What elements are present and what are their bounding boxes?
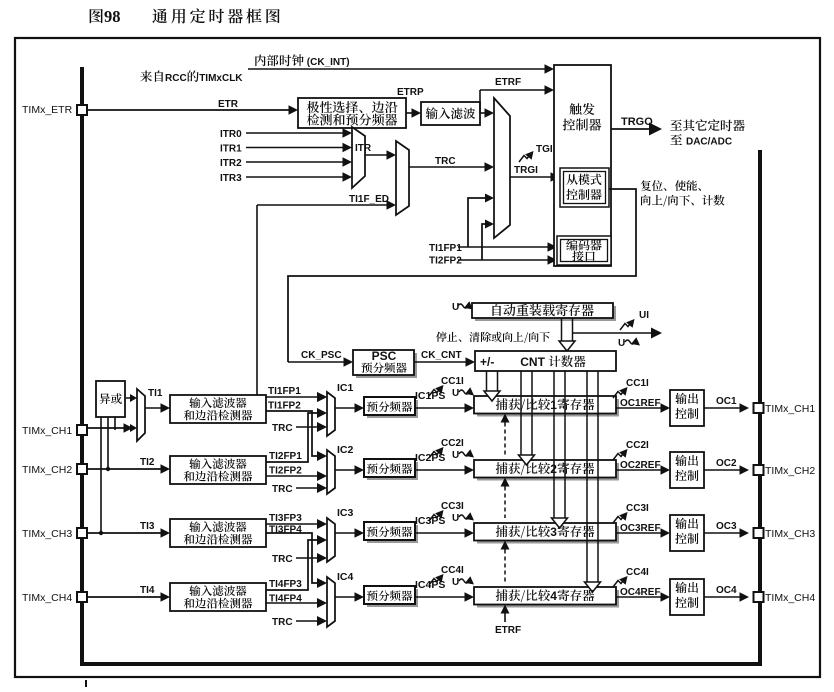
svg-text:U: U — [452, 302, 459, 313]
svg-text:自动重装载寄存器: 自动重装载寄存器 — [490, 300, 594, 319]
svg-text:CK_CNT: CK_CNT — [421, 350, 462, 361]
svg-text:U: U — [452, 513, 459, 524]
svg-text:内部时钟 (CK_INT): 内部时钟 (CK_INT) — [254, 51, 350, 69]
svg-text:TI4: TI4 — [140, 585, 155, 596]
svg-text:U: U — [452, 388, 459, 399]
svg-text:CC4I: CC4I — [626, 567, 649, 578]
svg-text:U: U — [618, 338, 625, 349]
svg-text:TIMx_CH3: TIMx_CH3 — [22, 528, 72, 540]
svg-text:U: U — [452, 577, 459, 588]
svg-text:接口: 接口 — [572, 248, 596, 265]
svg-text:ITR2: ITR2 — [220, 158, 242, 169]
svg-text:TRC: TRC — [272, 423, 293, 434]
svg-text:TI1FP2: TI1FP2 — [268, 401, 301, 412]
svg-text:ITR1: ITR1 — [220, 144, 242, 155]
svg-text:TIMx_CH1: TIMx_CH1 — [22, 425, 72, 437]
svg-text:CC2I: CC2I — [626, 440, 649, 451]
svg-text:TI2FP2: TI2FP2 — [269, 466, 302, 477]
svg-text:ITR3: ITR3 — [220, 173, 242, 184]
svg-text:通用定时器框图: 通用定时器框图 — [152, 4, 284, 27]
svg-text:向上/向下、计数: 向上/向下、计数 — [640, 193, 725, 209]
svg-text:和边沿检测器: 和边沿检测器 — [184, 532, 253, 548]
svg-text:ETRF: ETRF — [495, 625, 521, 636]
svg-text:和边沿检测器: 和边沿检测器 — [184, 408, 253, 424]
svg-text:CC3I: CC3I — [441, 501, 464, 512]
svg-text:图98: 图98 — [88, 4, 121, 27]
svg-text:控制: 控制 — [675, 594, 699, 611]
svg-text:IC4: IC4 — [337, 571, 354, 583]
svg-text:TIMx_CH4: TIMx_CH4 — [765, 592, 815, 604]
svg-text:TI4FP3: TI4FP3 — [269, 579, 302, 590]
svg-text:TI1FP1: TI1FP1 — [268, 386, 301, 397]
svg-text:控制: 控制 — [675, 467, 699, 484]
svg-text:预分频器: 预分频器 — [367, 524, 413, 540]
svg-text:来自RCC的TIMxCLK: 来自RCC的TIMxCLK — [140, 67, 243, 85]
svg-text:OC1: OC1 — [716, 396, 737, 407]
svg-text:捕获/比较2寄存器: 捕获/比较2寄存器 — [496, 459, 595, 477]
svg-text:TI1F_ED: TI1F_ED — [349, 194, 389, 205]
svg-text:控制器: 控制器 — [566, 186, 602, 203]
svg-text:控制器: 控制器 — [562, 115, 601, 134]
svg-text:控制: 控制 — [675, 405, 699, 422]
svg-text:TRC: TRC — [435, 156, 456, 167]
svg-text:CC3I: CC3I — [626, 503, 649, 514]
svg-text:预分频器: 预分频器 — [367, 461, 413, 477]
svg-text:TI2FP1: TI2FP1 — [269, 451, 302, 462]
svg-text:CC1I: CC1I — [626, 378, 649, 389]
svg-text:TRGO: TRGO — [621, 116, 653, 128]
svg-text:TIMx_CH3: TIMx_CH3 — [765, 528, 815, 540]
svg-text:TI1: TI1 — [148, 388, 163, 399]
svg-text:TI2: TI2 — [140, 457, 155, 468]
svg-text:TI3FP3: TI3FP3 — [269, 513, 302, 524]
svg-text:CC4I: CC4I — [441, 565, 464, 576]
svg-text:TRC: TRC — [272, 554, 293, 565]
svg-text:TIMx_CH4: TIMx_CH4 — [22, 592, 72, 604]
svg-text:ITR: ITR — [355, 143, 372, 154]
svg-text:TRC: TRC — [272, 484, 293, 495]
svg-text:IC3: IC3 — [337, 507, 354, 519]
svg-text:UI: UI — [639, 310, 649, 321]
svg-text:预分频器: 预分频器 — [361, 360, 407, 376]
svg-text:和边沿检测器: 和边沿检测器 — [184, 596, 253, 612]
svg-text:IC2: IC2 — [337, 444, 354, 456]
svg-text:TGI: TGI — [536, 144, 553, 155]
svg-text:预分频器: 预分频器 — [367, 588, 413, 604]
svg-text:捕获/比较3寄存器: 捕获/比较3寄存器 — [496, 522, 595, 540]
svg-text:TRC: TRC — [272, 617, 293, 628]
svg-text:预分频器: 预分频器 — [367, 399, 413, 415]
svg-text:捕获/比较4寄存器: 捕获/比较4寄存器 — [496, 586, 595, 604]
svg-text:TIMx_CH2: TIMx_CH2 — [765, 465, 815, 477]
svg-text:CC2I: CC2I — [441, 438, 464, 449]
svg-text:CNT 计数器: CNT 计数器 — [520, 352, 586, 370]
svg-text:TI3: TI3 — [140, 521, 155, 532]
svg-text:输入滤波: 输入滤波 — [424, 104, 476, 122]
svg-text:TIMx_CH2: TIMx_CH2 — [22, 464, 72, 476]
svg-text:ITR0: ITR0 — [220, 129, 242, 140]
svg-text:停止、清除或向上/向下: 停止、清除或向上/向下 — [436, 329, 550, 345]
svg-text:TI2FP2: TI2FP2 — [429, 256, 462, 267]
svg-text:TRGI: TRGI — [514, 165, 538, 176]
svg-text:和边沿检测器: 和边沿检测器 — [184, 469, 253, 485]
svg-text:TIMx_ETR: TIMx_ETR — [22, 104, 73, 116]
svg-text:TI1FP1: TI1FP1 — [429, 243, 462, 254]
svg-text:ETRP: ETRP — [397, 87, 424, 98]
svg-text:OC3: OC3 — [716, 521, 737, 532]
svg-text:U: U — [452, 450, 459, 461]
svg-text:OC4: OC4 — [716, 585, 737, 596]
svg-text:ETR: ETR — [218, 99, 239, 110]
svg-text:CC1I: CC1I — [441, 376, 464, 387]
svg-text:TIMx_CH1: TIMx_CH1 — [765, 403, 815, 415]
svg-text:OC2: OC2 — [716, 458, 737, 469]
svg-text:ETRF: ETRF — [495, 77, 521, 88]
svg-text:+/-: +/- — [480, 355, 494, 369]
svg-text:控制: 控制 — [675, 530, 699, 547]
svg-text:IC1: IC1 — [337, 382, 354, 394]
svg-text:异或: 异或 — [99, 391, 122, 407]
svg-text:捕获/比较1寄存器: 捕获/比较1寄存器 — [496, 395, 595, 413]
svg-text:CK_PSC: CK_PSC — [301, 350, 342, 361]
